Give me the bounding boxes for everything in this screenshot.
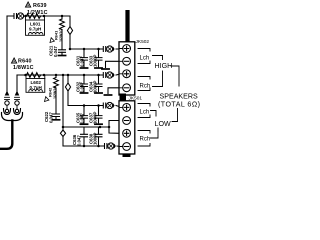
svg-text:R639: R639 [33, 3, 47, 9]
svg-text:0.047: 0.047 [80, 113, 85, 124]
svg-text:SPEAKERS: SPEAKERS [160, 92, 199, 100]
svg-text:0.047: 0.047 [49, 112, 54, 123]
svg-text:Lch: Lch [140, 110, 150, 116]
svg-text:1000P: 1000P [93, 132, 98, 145]
svg-text:JK502: JK502 [136, 39, 150, 45]
svg-text:1/2W1C: 1/2W1C [59, 29, 63, 42]
svg-text:0.047: 0.047 [80, 82, 85, 93]
svg-text:0.047: 0.047 [76, 135, 81, 146]
svg-text:R640: R640 [18, 59, 32, 65]
svg-text:1/2W1C: 1/2W1C [53, 86, 57, 99]
svg-text:JK501: JK501 [129, 96, 143, 102]
svg-text:(TOTAL 6Ω): (TOTAL 6Ω) [158, 101, 200, 109]
svg-text:R641: R641 [54, 30, 59, 40]
svg-text:0.047: 0.047 [53, 46, 58, 57]
svg-text:1000P: 1000P [93, 80, 98, 93]
svg-text:9.7µH: 9.7µH [29, 27, 42, 32]
svg-text:0.7µH: 0.7µH [30, 85, 43, 90]
svg-text:R642: R642 [48, 87, 53, 97]
svg-text:HIGH: HIGH [155, 62, 173, 70]
svg-text:Rch: Rch [140, 137, 151, 143]
svg-text:1000P: 1000P [93, 54, 98, 67]
svg-text:1/8W1C: 1/8W1C [13, 65, 34, 71]
svg-text:1000P: 1000P [93, 111, 98, 124]
svg-text:1/2W1C: 1/2W1C [27, 10, 48, 16]
svg-text:Rch: Rch [140, 84, 151, 90]
svg-text:Lch: Lch [140, 56, 150, 62]
svg-text:LOW: LOW [155, 120, 171, 128]
svg-text:0.047: 0.047 [80, 56, 85, 67]
